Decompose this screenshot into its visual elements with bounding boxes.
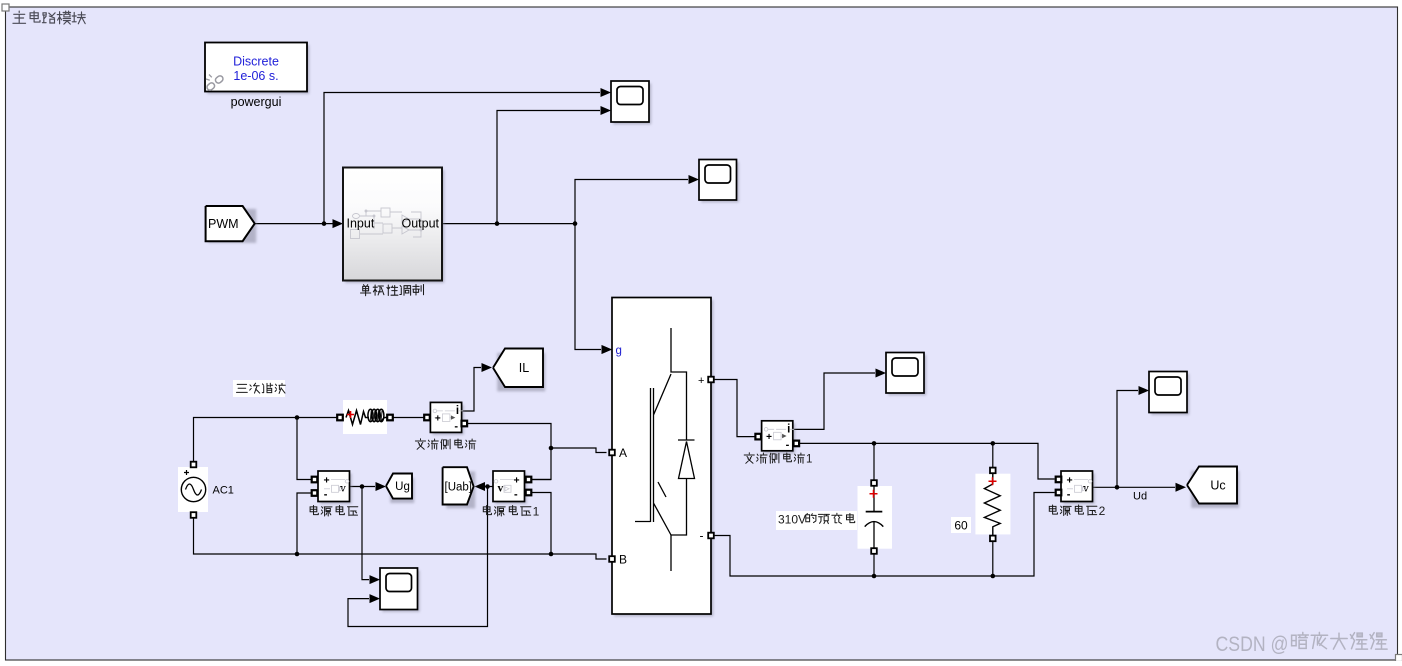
svg-text:[Uab]: [Uab]: [445, 482, 473, 494]
svg-text:IL: IL: [519, 361, 529, 375]
svg-text:Input: Input: [347, 217, 375, 231]
svg-text:Output: Output: [401, 217, 439, 231]
svg-text:i: i: [456, 405, 459, 417]
svg-text:1: 1: [533, 504, 540, 518]
svg-text:1e-06 s.: 1e-06 s.: [233, 69, 278, 83]
svg-text:-: -: [324, 489, 328, 501]
svg-text:+: +: [514, 475, 520, 487]
svg-text:Ud: Ud: [1133, 491, 1147, 503]
svg-text:i: i: [787, 423, 790, 435]
svg-text:A: A: [619, 446, 627, 460]
svg-text:1: 1: [806, 453, 812, 465]
svg-text:powergui: powergui: [231, 95, 282, 109]
svg-text:-: -: [786, 439, 790, 451]
svg-text:-: -: [1067, 489, 1071, 501]
svg-text:Uc: Uc: [1210, 479, 1225, 493]
svg-text:g: g: [616, 345, 622, 357]
svg-text:v: v: [498, 482, 504, 494]
svg-text:60: 60: [954, 519, 968, 533]
svg-text:-: -: [514, 489, 518, 501]
svg-text:+: +: [435, 414, 441, 425]
svg-text:AC1: AC1: [213, 485, 234, 497]
svg-text:+: +: [766, 432, 772, 443]
svg-text:B: B: [619, 553, 627, 567]
svg-text:-: -: [700, 529, 704, 543]
svg-text:310V: 310V: [778, 512, 806, 526]
svg-text:+: +: [698, 375, 704, 387]
svg-text:+: +: [324, 475, 330, 487]
svg-text:Ug: Ug: [395, 481, 410, 493]
svg-text:CSDN @: CSDN @: [1216, 633, 1289, 656]
svg-text:Discrete: Discrete: [233, 55, 279, 69]
svg-text:+: +: [1067, 475, 1073, 487]
svg-text:-: -: [454, 420, 458, 432]
svg-text:PWM: PWM: [208, 217, 239, 231]
svg-text:2: 2: [1099, 504, 1106, 518]
